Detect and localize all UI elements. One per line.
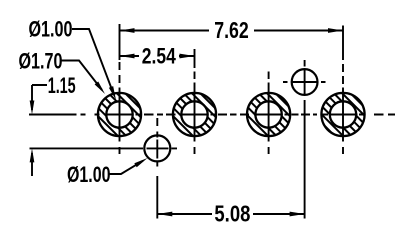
dimension 7.62 line <box>120 30 344 32</box>
hole H3 vertical centerline <box>268 72 270 155</box>
dimension 2.54 line <box>120 55 195 57</box>
hole H3 hatched annulus <box>247 93 290 136</box>
top small circle P1 <box>292 69 318 95</box>
dimension 2.54 right extension line <box>194 49 196 68</box>
top small circle P1 horizontal centerline <box>283 81 326 83</box>
dimension 5.08 right arrow <box>290 212 305 217</box>
dimension 1.15 upper arrow <box>30 101 35 115</box>
leader Ø1.70 line <box>62 61 103 91</box>
svg-text:Ø1.00: Ø1.00 <box>67 162 111 187</box>
leader Ø1.00 top arrow <box>109 86 116 100</box>
hole H2 hatched annulus <box>173 93 216 136</box>
dimension 5.08 line <box>157 213 304 215</box>
hole H2 vertical centerline <box>194 72 196 155</box>
hole H3 outer circle <box>247 93 290 136</box>
dimension 1.15 lower arrow <box>30 148 35 162</box>
svg-text:1.15: 1.15 <box>48 73 76 98</box>
dimension 7.62 right arrow <box>328 28 343 33</box>
hole H4 outer circle <box>321 93 364 136</box>
svg-text:Ø1.70: Ø1.70 <box>19 49 63 74</box>
top small circle P1 vertical centerline <box>304 60 306 96</box>
hole H1 inner circle <box>106 101 132 127</box>
dimension 5.08 left arrow <box>157 212 172 217</box>
hole H4 inner circle <box>330 101 356 127</box>
hole H1 hatched annulus <box>98 93 141 136</box>
dimension 5.08 right extension line <box>304 100 306 219</box>
hole H1 vertical centerline <box>119 62 121 154</box>
hole H4 vertical centerline <box>342 64 344 154</box>
dimension 1.15 lower arrow tail <box>31 153 33 176</box>
hole H1 outer circle <box>98 93 141 136</box>
dimension 1.15 lower extension line <box>30 147 144 149</box>
dimension 5.08 left extension line <box>156 176 158 219</box>
hole H2 inner circle <box>181 101 207 127</box>
dimension 7.62 left extension line <box>119 24 121 60</box>
svg-text:5.08: 5.08 <box>214 200 250 224</box>
svg-text:Ø1.00: Ø1.00 <box>29 17 73 42</box>
svg-text:2.54: 2.54 <box>142 43 177 68</box>
dimension 7.62 right extension line <box>342 26 344 61</box>
bottom small circle P2 horizontal centerline <box>147 147 178 149</box>
dimension 7.62 left arrow <box>120 28 135 33</box>
bottom small circle P2 vertical centerline <box>156 118 158 167</box>
hole H2 outer circle <box>173 93 216 136</box>
leader Ø1.00 bottom line <box>110 161 144 174</box>
leader Ø1.00 top line <box>72 29 114 95</box>
svg-text:7.62: 7.62 <box>214 17 249 43</box>
hole H4 hatched annulus <box>321 93 364 136</box>
bottom small circle P2 <box>144 135 170 161</box>
dimension 2.54 left arrow <box>120 54 135 59</box>
hole H3 inner circle <box>255 101 281 127</box>
horizontal centerline (row axis y=114.5) <box>29 114 395 116</box>
dimension 2.54 right arrow <box>180 54 195 59</box>
dimension 1.15 upper leader line <box>32 85 47 110</box>
leader Ø1.00 bottom arrow <box>134 158 147 167</box>
leader Ø1.70 arrow <box>95 82 105 94</box>
